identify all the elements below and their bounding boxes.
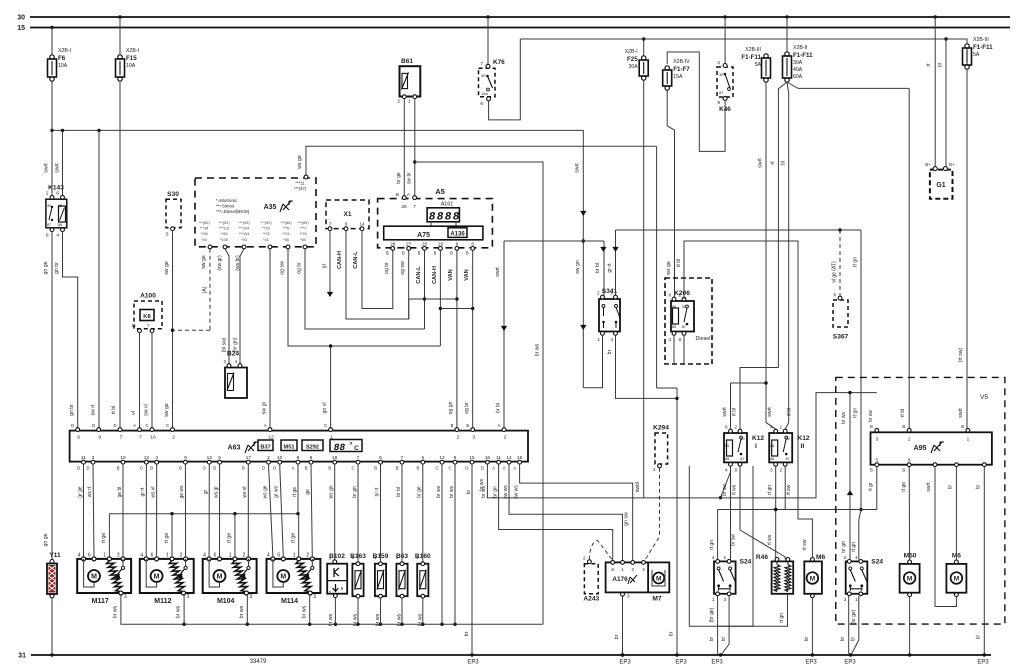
svg-text:A: A	[498, 423, 501, 428]
svg-text:2: 2	[631, 567, 634, 573]
svg-text:2: 2	[583, 556, 586, 561]
svg-text:rt sw: rt sw	[786, 484, 792, 495]
svg-text:M114: M114	[281, 598, 298, 605]
svg-text:4: 4	[234, 359, 237, 364]
svg-text:B: B	[402, 251, 405, 256]
svg-text:B: B	[117, 466, 120, 471]
svg-text:2: 2	[374, 593, 377, 598]
svg-text:6: 6	[471, 242, 474, 248]
svg-text:X2B-III: X2B-III	[745, 47, 761, 53]
fuse F25 top wire	[642, 37, 645, 56]
svg-text:og gn: og gn	[448, 401, 454, 414]
svg-text:swrt: swrt	[958, 408, 964, 418]
wires A63 to sensors	[358, 464, 423, 562]
svg-text:B61: B61	[401, 58, 413, 65]
svg-text:2: 2	[328, 590, 331, 595]
wire A63.11 to A176.6	[499, 464, 613, 560]
svg-text:swrt: swrt	[926, 482, 932, 492]
svg-text:31: 31	[18, 653, 26, 660]
svg-text:sw ge: sw ge	[164, 403, 170, 417]
svg-text:K12: K12	[798, 435, 810, 442]
wire K12II.3 to R46	[767, 466, 777, 559]
sensor B63	[395, 553, 408, 626]
wire K12I.4 down	[719, 466, 737, 559]
svg-text:30: 30	[719, 72, 724, 77]
motor M6	[804, 554, 825, 598]
svg-text:6: 6	[77, 435, 80, 441]
svg-text:C: C	[354, 445, 359, 452]
svg-text:og br: og br	[297, 262, 303, 274]
fuse F1-F11	[783, 45, 814, 82]
wire A5.9 VAN to A63.2	[448, 250, 459, 428]
svg-text:EP3: EP3	[977, 660, 989, 666]
wire swrt to A63.2b	[495, 241, 507, 429]
svg-text:br gn: br gn	[841, 541, 847, 553]
svg-text:8: 8	[734, 468, 737, 473]
display A161	[427, 208, 460, 226]
svg-text:M104: M104	[217, 598, 235, 605]
svg-text:M: M	[91, 574, 97, 581]
svg-text:6: 6	[379, 455, 382, 461]
wire H230 arrow to S341.3	[607, 228, 861, 295]
svg-text:M: M	[907, 576, 912, 583]
wire Y11 to bus31	[50, 598, 53, 657]
svg-text:ws gn: ws gn	[329, 485, 335, 498]
svg-text:M: M	[810, 576, 815, 583]
svg-text:swrt: swrt	[495, 267, 501, 277]
wires B61 to A5	[396, 99, 415, 196]
svg-text:vl: vl	[131, 411, 137, 415]
svg-text:5: 5	[166, 232, 169, 238]
svg-text:EP3: EP3	[675, 660, 687, 666]
svg-text:A243: A243	[583, 596, 599, 603]
svg-text:A100: A100	[140, 293, 156, 300]
svg-text:br: br	[976, 484, 982, 489]
svg-text:87: 87	[47, 223, 51, 227]
svg-text:A: A	[492, 466, 495, 471]
relay K12 I	[724, 429, 764, 466]
svg-text:EP3: EP3	[467, 660, 479, 666]
wires A63 to M112	[146, 464, 185, 557]
svg-text:2: 2	[780, 468, 783, 473]
svg-text:86: 86	[770, 457, 774, 461]
svg-text:A95: A95	[914, 445, 927, 452]
wire R46 ground	[718, 594, 788, 626]
svg-text:10: 10	[150, 435, 156, 441]
A63 bottom wire labels	[77, 485, 519, 499]
svg-text:3: 3	[723, 597, 726, 602]
wire K12II.2 down	[785, 466, 792, 509]
wire K206 ground stub	[674, 335, 684, 364]
fuse F25	[625, 49, 648, 80]
svg-text:10A: 10A	[126, 63, 136, 69]
svg-text:B: B	[242, 466, 245, 471]
svg-text:B: B	[328, 466, 331, 471]
svg-text:(ws br): (ws br)	[235, 255, 241, 271]
svg-text:EP3: EP3	[711, 660, 723, 666]
wire S24 II grounds	[840, 596, 859, 657]
svg-text:K8: K8	[143, 314, 151, 320]
svg-text:A: A	[133, 423, 136, 428]
svg-text:**21: **21	[282, 232, 289, 236]
svg-text:rt gr: rt gr	[868, 482, 874, 491]
svg-text:gr: gr	[203, 489, 209, 494]
svg-text:87: 87	[740, 457, 744, 461]
svg-text:rt gn: rt gn	[779, 613, 785, 623]
svg-text:4: 4	[203, 552, 206, 558]
svg-text:*108: *108	[220, 238, 228, 242]
svg-text:gn vl: gn vl	[322, 403, 328, 414]
sensor B61	[397, 58, 420, 105]
svg-text:1: 1	[597, 337, 600, 342]
svg-text:br: br	[709, 636, 715, 641]
svg-text:gn br: gn br	[69, 404, 75, 416]
motor M6 second	[946, 553, 966, 597]
svg-text:vl ge (AT): vl ge (AT)	[832, 261, 838, 283]
svg-text:3: 3	[187, 594, 190, 600]
wire A63.16b to A176.2	[520, 464, 633, 560]
wire F1-F11 5A left down	[758, 82, 776, 429]
svg-text:15: 15	[17, 25, 25, 32]
svg-text:og sw: og sw	[280, 261, 286, 275]
svg-text:8: 8	[310, 455, 313, 461]
svg-text:B: B	[434, 251, 437, 256]
svg-text:2: 2	[844, 555, 847, 560]
wire bus30 to K76	[486, 15, 489, 64]
svg-text:M: M	[154, 574, 160, 581]
wire A5.6 VAN to A63.3	[464, 250, 474, 428]
svg-text:4: 4	[140, 552, 143, 558]
svg-text:1: 1	[712, 597, 715, 602]
wire A176.3 to bus31	[614, 596, 624, 657]
svg-text:br rt: br rt	[374, 487, 380, 497]
svg-text:gr rt: gr rt	[607, 263, 613, 273]
svg-text:4: 4	[56, 233, 59, 239]
svg-text:9: 9	[98, 435, 101, 441]
svg-text:***(89): ***(89)	[297, 221, 309, 225]
svg-text:8: 8	[678, 337, 681, 342]
svg-text:15A: 15A	[673, 74, 683, 80]
svg-text:1: 1	[166, 552, 169, 558]
sensor B24	[223, 351, 247, 399]
svg-text:10: 10	[120, 455, 126, 461]
svg-text:swrt: swrt	[767, 407, 773, 417]
svg-text:B: B	[374, 466, 377, 471]
svg-text:A63: A63	[228, 445, 241, 452]
wire 15-feed rail	[44, 81, 587, 388]
svg-text:30: 30	[17, 15, 25, 22]
svg-text:6: 6	[668, 293, 671, 298]
svg-text:K76: K76	[493, 59, 505, 66]
svg-text:CAN-H: CAN-H	[432, 266, 438, 284]
svg-text:A136: A136	[450, 232, 465, 238]
svg-text:B: B	[466, 423, 469, 428]
svg-text:V5: V5	[980, 394, 988, 401]
svg-text:F1-F11: F1-F11	[973, 44, 993, 51]
svg-text:*=Motronic: *=Motronic	[216, 198, 238, 203]
svg-text:12: 12	[439, 455, 445, 461]
svg-text:B: B	[870, 468, 873, 473]
svg-text:12: 12	[268, 435, 274, 441]
svg-text:B: B	[870, 424, 873, 429]
svg-text:rt sw: rt sw	[802, 539, 808, 550]
svg-text:br ge: br ge	[396, 172, 402, 184]
svg-text:br: br	[614, 634, 620, 639]
svg-text:rt ge: rt ge	[101, 533, 107, 543]
wire br ws with arrow to S24II.2	[841, 391, 853, 560]
dashed wire A243 to A176.6	[589, 540, 612, 560]
svg-text:M7: M7	[652, 596, 661, 603]
svg-text:II: II	[801, 443, 805, 450]
svg-text:(sw gr): (sw gr)	[217, 255, 223, 271]
svg-text:D+: D+	[949, 162, 955, 167]
svg-text:88: 88	[333, 442, 347, 453]
wire K143.9 to Y11	[43, 232, 52, 561]
svg-text:br gn: br gn	[492, 486, 498, 498]
wire H383 swrt distribution	[722, 381, 773, 429]
svg-text:2: 2	[397, 99, 400, 105]
relay K12 II	[769, 429, 810, 466]
svg-text:br sw: br sw	[868, 410, 874, 422]
switch S30	[166, 191, 181, 238]
svg-text:swrt: swrt	[55, 163, 61, 173]
svg-text:rt ge: rt ge	[227, 533, 233, 543]
svg-text:Y11: Y11	[49, 552, 61, 559]
svg-text:M6: M6	[816, 554, 825, 561]
svg-text:K206: K206	[674, 290, 690, 297]
svg-text:1: 1	[621, 567, 624, 573]
wire fuse 5A to A95 pin1	[958, 69, 967, 428]
svg-text:18: 18	[332, 455, 338, 461]
svg-text:17: 17	[246, 455, 252, 461]
wire H241 arrow to S341.2	[595, 241, 607, 295]
svg-text:6: 6	[151, 552, 154, 558]
wire M50 ground	[908, 597, 911, 657]
svg-text:6: 6	[345, 222, 348, 227]
svg-text:A: A	[503, 466, 506, 471]
svg-text:86: 86	[58, 223, 62, 227]
wire A95 br to ground	[976, 467, 987, 657]
svg-text:br sw: br sw	[722, 484, 728, 496]
svg-text:br ws: br ws	[113, 605, 119, 618]
svg-text:10: 10	[277, 455, 283, 461]
svg-text:X2B-I: X2B-I	[126, 48, 139, 54]
svg-text:og br: og br	[384, 262, 390, 274]
fuse F1-F11	[963, 37, 994, 69]
svg-text:M50: M50	[904, 553, 917, 560]
svg-text:(rt sw): (rt sw)	[958, 348, 964, 363]
svg-text:og sw: og sw	[400, 261, 406, 275]
svg-text:3: 3	[223, 359, 226, 364]
svg-text:M: M	[217, 574, 223, 581]
svg-text:1: 1	[855, 597, 858, 602]
svg-text:ge: ge	[305, 489, 311, 495]
svg-text:***104: ***104	[239, 227, 250, 231]
svg-text:4: 4	[725, 468, 728, 473]
svg-text:br ws: br ws	[239, 605, 245, 618]
svg-text:*60: *60	[300, 238, 306, 242]
wire bus30 to K46	[723, 15, 726, 63]
svg-text:***(50): ***(50)	[260, 221, 272, 225]
svg-text:7: 7	[357, 455, 360, 461]
svg-text:B+: B+	[925, 162, 931, 167]
svg-text:swrt: swrt	[44, 163, 50, 173]
bus 30	[17, 15, 1010, 22]
sensor B159	[373, 553, 389, 626]
svg-text:1: 1	[330, 435, 333, 441]
svg-text:og br: og br	[464, 402, 470, 414]
wire rt gn to S24II.4	[851, 510, 861, 560]
generator G1	[925, 162, 955, 199]
svg-text:30: 30	[481, 73, 486, 78]
svg-text:11: 11	[131, 323, 136, 328]
svg-text:D: D	[92, 423, 95, 428]
dashed wire to S367	[832, 230, 841, 296]
svg-text:br: br	[466, 489, 472, 494]
svg-text:A75: A75	[417, 232, 430, 239]
svg-text:85: 85	[672, 325, 676, 329]
instrument cluster A5	[378, 187, 493, 248]
wire H367 rt bl distribution	[732, 368, 793, 430]
svg-text:ws ge: ws ge	[297, 155, 303, 169]
svg-text:B: B	[450, 251, 453, 256]
svg-text:gn ge: gn ge	[43, 261, 49, 274]
wires A63 to M104	[209, 464, 248, 557]
svg-text:B: B	[451, 423, 454, 428]
svg-text:br ws: br ws	[176, 605, 182, 618]
svg-text:9: 9	[456, 242, 459, 248]
svg-text:26: 26	[402, 204, 408, 210]
sensor B160	[415, 553, 431, 626]
fuse F6	[48, 48, 71, 81]
svg-text:S24: S24	[871, 558, 883, 565]
svg-text:6: 6	[277, 552, 280, 558]
svg-text:EP3: EP3	[844, 660, 856, 666]
resistor R46	[756, 554, 793, 594]
wires rail to K143	[52, 131, 63, 196]
servo motor M114	[267, 552, 321, 605]
svg-text:B: B	[386, 251, 389, 256]
svg-text:5: 5	[218, 455, 221, 461]
svg-text:4: 4	[610, 337, 613, 342]
svg-text:***7: ***7	[300, 227, 307, 231]
svg-text:4: 4	[78, 552, 81, 558]
S24 II pin numbers	[844, 555, 859, 602]
svg-text:B: B	[417, 466, 420, 471]
wire A63.18 to B102	[334, 464, 336, 560]
svg-text:1: 1	[229, 552, 232, 558]
svg-text:B: B	[418, 251, 421, 256]
wire A63.16 to A95.3	[479, 393, 877, 498]
svg-text:M: M	[656, 576, 661, 583]
svg-text:*41: *41	[263, 238, 269, 242]
control unit A63	[70, 431, 528, 462]
svg-text:br: br	[464, 631, 470, 636]
svg-text:br sw: br sw	[731, 534, 737, 546]
svg-text:B: B	[902, 468, 905, 473]
wire H241 distribution	[504, 240, 604, 242]
sensor B102	[327, 553, 347, 626]
svg-text:ws gr: ws gr	[213, 486, 219, 498]
svg-text:A: A	[513, 466, 516, 471]
svg-text:2: 2	[172, 435, 175, 441]
svg-text:***(88): ***(88)	[280, 221, 292, 225]
wires A100 to A63	[131, 333, 152, 429]
wire rail to A63.9	[91, 131, 100, 429]
svg-text:M117: M117	[92, 598, 109, 605]
wire A35 CAN low	[297, 249, 425, 329]
svg-text:D: D	[262, 466, 265, 471]
svg-text:*93: *93	[241, 238, 247, 242]
svg-text:3: 3	[124, 594, 127, 600]
bridge wire node links	[409, 299, 473, 319]
svg-text:2: 2	[653, 467, 656, 472]
svg-text:ge ws: ge ws	[179, 485, 185, 499]
svg-text:ws ge: ws ge	[262, 485, 268, 498]
svg-text:**20: **20	[299, 232, 306, 236]
svg-text:C: C	[145, 423, 148, 428]
wire K206.2 feed	[676, 241, 812, 559]
svg-text:3: 3	[249, 594, 252, 600]
svg-text:M112: M112	[154, 598, 171, 605]
svg-text:Diesel: Diesel	[696, 336, 711, 342]
svg-text:2: 2	[117, 552, 120, 558]
switch S341	[597, 288, 620, 342]
ground rail br ws	[121, 595, 543, 626]
svg-text:2: 2	[416, 593, 419, 598]
svg-text:15: 15	[469, 455, 475, 461]
svg-text:1: 1	[780, 425, 783, 430]
servo motor M104	[203, 552, 257, 605]
svg-text:o: o	[350, 441, 353, 446]
control unit A95	[870, 424, 992, 473]
svg-text:***34: ***34	[200, 227, 209, 231]
svg-text:7: 7	[139, 435, 142, 441]
svg-text:sw gr: sw gr	[262, 402, 268, 415]
svg-text:B: B	[396, 192, 399, 197]
svg-text:br: br	[948, 484, 954, 489]
svg-text:**83: **83	[220, 232, 227, 236]
svg-text:gr ge: gr ge	[77, 486, 83, 498]
wire A5.19 CAN-H down	[432, 250, 442, 346]
svg-text:br: br	[669, 631, 675, 636]
svg-text:27: 27	[406, 242, 412, 248]
svg-text:C: C	[324, 423, 327, 428]
svg-text:A35: A35	[264, 204, 277, 211]
wire A63.14 to A176.1	[509, 464, 630, 560]
svg-text:5: 5	[421, 455, 424, 461]
A5 bottom pins	[386, 242, 475, 256]
svg-text:K294: K294	[653, 425, 669, 432]
svg-text:rt: rt	[770, 161, 776, 165]
svg-text:gr ws: gr ws	[274, 486, 280, 498]
relay K46	[717, 60, 733, 113]
svg-text:sw br: sw br	[407, 172, 413, 184]
svg-text:I: I	[755, 443, 757, 450]
wire A95 swrt to M6 second	[926, 467, 956, 607]
switch S24	[846, 558, 884, 595]
svg-text:B37: B37	[260, 444, 270, 450]
svg-text:A161: A161	[441, 202, 454, 208]
wire S24 grounds	[709, 596, 729, 657]
svg-text:D: D	[77, 466, 80, 471]
svg-text:3: 3	[627, 594, 630, 599]
svg-text:4: 4	[642, 567, 645, 573]
svg-text:(br ge): (br ge)	[709, 607, 715, 622]
svg-text:2: 2	[243, 552, 246, 558]
svg-text:85: 85	[770, 444, 774, 448]
svg-text:B: B	[466, 251, 469, 256]
